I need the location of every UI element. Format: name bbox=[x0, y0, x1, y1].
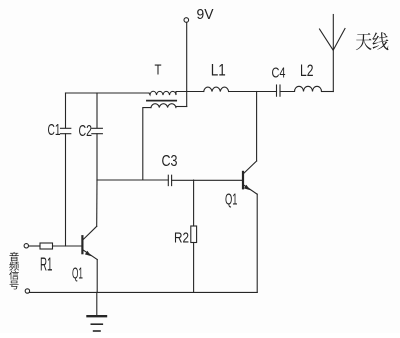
ground bbox=[88, 292, 107, 331]
wire Q1 left collector to node bbox=[96, 180, 98, 226]
label antenna 天线 bbox=[356, 32, 389, 50]
svg-text:C1: C1 bbox=[48, 122, 61, 139]
svg-text:R2: R2 bbox=[174, 230, 189, 247]
wire L2 to antenna bbox=[322, 91, 334, 93]
svg-text:T: T bbox=[155, 61, 162, 78]
transformer T primary winding bbox=[149, 91, 176, 95]
label L1 bbox=[211, 61, 226, 80]
resistor R1 bbox=[40, 243, 53, 249]
wire C4 to L2 bbox=[280, 91, 295, 93]
inductor L2 bbox=[295, 86, 322, 91]
audio input terminal (top) bbox=[24, 244, 28, 248]
label L2 bbox=[300, 61, 314, 80]
label antenna text 线 bbox=[372, 32, 388, 50]
label R1 bbox=[40, 254, 53, 274]
transformer T core bbox=[147, 100, 176, 102]
label T bbox=[155, 61, 162, 78]
wire transformer secondary right lead bbox=[176, 106, 187, 108]
label input text 音 bbox=[9, 252, 18, 261]
svg-text:C3: C3 bbox=[162, 153, 178, 170]
transistor Q1 (right, oscillator) bbox=[243, 161, 257, 194]
label Q1 (right) bbox=[225, 191, 238, 208]
wire C3 to Q1 base (right) bbox=[172, 179, 243, 181]
ground terminal (bottom-left) bbox=[25, 289, 29, 293]
capacitor C3 bbox=[168, 175, 171, 185]
label C1 bbox=[48, 122, 61, 139]
wire L1 to C4 bbox=[229, 91, 277, 93]
wire transformer secondary left lead bbox=[143, 108, 151, 180]
label C3 bbox=[162, 153, 178, 170]
label R2 bbox=[174, 230, 189, 247]
svg-text:C2: C2 bbox=[79, 123, 93, 140]
capacitor C4 bbox=[277, 85, 281, 96]
svg-text:Q1: Q1 bbox=[72, 266, 83, 283]
wire top-left node (C1/C2 top to transformer primary) bbox=[66, 92, 150, 94]
antenna bbox=[320, 15, 346, 92]
label Q1 (left) bbox=[72, 266, 83, 283]
label C2 bbox=[79, 123, 93, 140]
label antenna text 天 bbox=[356, 33, 372, 50]
svg-text:L1: L1 bbox=[211, 61, 226, 80]
9V supply terminal bbox=[184, 18, 189, 23]
transformer T secondary winding bbox=[151, 104, 176, 108]
capacitor C2 bbox=[92, 93, 103, 180]
capacitor C1 bbox=[61, 93, 71, 246]
label C4 bbox=[272, 65, 286, 82]
label input text 信 bbox=[9, 270, 19, 279]
wire primary to L1 bbox=[176, 91, 204, 93]
svg-text:L2: L2 bbox=[300, 61, 314, 80]
svg-text:R1: R1 bbox=[40, 254, 53, 274]
inductor L1 bbox=[204, 87, 229, 91]
svg-text:Q1: Q1 bbox=[225, 191, 238, 208]
label input text 号 bbox=[10, 281, 19, 290]
transistor Q1 (left, modulator) bbox=[82, 226, 97, 259]
wire input to R1 bbox=[29, 245, 41, 247]
wire Q1 right emitter to ground rail bbox=[256, 194, 258, 292]
svg-text:C4: C4 bbox=[272, 65, 286, 82]
wire R1 to Q1 base (left) bbox=[53, 245, 83, 247]
label input text 频 bbox=[9, 261, 19, 270]
wire Q1 left emitter down bbox=[96, 260, 98, 293]
wire node A (C2 bottom / Q1 left collector to C3) bbox=[97, 179, 168, 181]
label audio input 音频信号 (vertical) bbox=[9, 252, 19, 289]
label 9V bbox=[197, 6, 214, 23]
resistor R2 bbox=[191, 180, 197, 292]
wire 9V vertical feed bbox=[186, 23, 188, 107]
wire ground rail bbox=[30, 291, 258, 293]
svg-text:9V: 9V bbox=[197, 6, 214, 23]
wire Q1 right collector up to L1/C4 node bbox=[256, 92, 258, 162]
